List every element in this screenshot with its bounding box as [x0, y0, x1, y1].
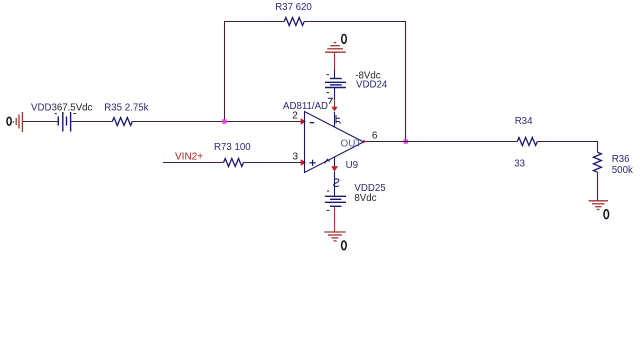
battery VDD3	[58, 112, 70, 132]
wire: feedback left vertical (junction to top)	[224, 22, 226, 122]
wire: feedback right vertical	[405, 22, 407, 142]
resistor R34	[517, 138, 537, 146]
V- power arrow	[331, 166, 338, 171]
V+ power arrow	[331, 107, 337, 112]
ground 0 (right)	[589, 201, 609, 210]
op-amp U9 triangle	[305, 112, 364, 173]
wire: R35 to op-amp pin 2	[132, 121, 301, 123]
svg-text:R35 2.75k: R35 2.75k	[104, 102, 148, 113]
pin 2 arrowhead	[301, 118, 306, 124]
svg-text:R36: R36	[612, 154, 630, 165]
op-amp plus sign	[310, 160, 316, 166]
wire: battery to R35	[71, 121, 113, 123]
wire: VDD24 to op-amp V+ pin	[334, 88, 336, 100]
pin 4 mark on bottom edge	[325, 159, 330, 163]
pin 7 mark (superscript)	[328, 98, 333, 103]
wire: V- pin to VDD25	[334, 172, 336, 197]
wire: R34 to corner and down to R36	[537, 142, 597, 153]
svg-text:8Vdc: 8Vdc	[354, 193, 376, 204]
svg-text:33: 33	[514, 159, 525, 170]
resistor R36	[593, 152, 601, 172]
op-amp V+ pin	[334, 112, 336, 128]
label 0 (bottom middle ground)	[342, 241, 347, 250]
battery VDD25	[325, 196, 346, 206]
svg-text:VDD24: VDD24	[356, 80, 388, 91]
pin 7 glyph (rotated)	[336, 115, 341, 124]
wire: op-amp output to R34	[366, 141, 517, 143]
ground 0 (bottom middle)	[324, 232, 345, 241]
resistor R37	[284, 18, 304, 26]
output arrowhead at apex	[363, 140, 366, 144]
wire: R36 to right ground	[597, 172, 599, 201]
pin 4 glyph (rotated)	[334, 179, 339, 187]
svg-text:R73 100: R73 100	[214, 142, 251, 153]
wire: top ground to VDD24	[334, 52, 336, 69]
resistor R35	[112, 118, 132, 126]
svg-text:OUT: OUT	[341, 138, 362, 149]
ground 0 (top, inverted)	[325, 43, 346, 53]
resistor R73	[224, 159, 244, 167]
svg-text:U9: U9	[346, 160, 358, 171]
op-amp minus sign	[310, 122, 315, 124]
wire: left ground to battery	[23, 121, 58, 123]
wire: R73 to op-amp pin 3	[244, 162, 302, 164]
wire: VIN2+ to R73	[163, 162, 224, 164]
svg-text:AD811/AD: AD811/AD	[283, 101, 328, 112]
svg-text:R34: R34	[515, 116, 533, 127]
battery VDD24	[325, 79, 346, 88]
label 0 (top ground)	[342, 35, 347, 44]
junction node (feedback/input)	[222, 119, 226, 123]
wire: VDD25 to bottom ground	[334, 206, 336, 232]
svg-text:2: 2	[292, 111, 298, 122]
junction node (output/feedback)	[404, 139, 408, 143]
pin 3 arrowhead	[301, 159, 306, 165]
svg-text:R37 620: R37 620	[275, 2, 312, 13]
svg-text:6: 6	[372, 131, 378, 142]
ground 0 (left, rotated)	[16, 112, 22, 132]
wire: feedback top horizontal right of R37	[304, 21, 406, 23]
label 0 (right ground)	[604, 210, 609, 219]
label 0 (left ground)	[7, 117, 11, 125]
svg-text:VDD367.5Vdc: VDD367.5Vdc	[31, 102, 93, 113]
svg-text:500k: 500k	[612, 165, 633, 176]
svg-text:3: 3	[293, 152, 299, 163]
wire: feedback top horizontal	[224, 21, 284, 23]
op-amp V- pin	[334, 157, 336, 167]
svg-text:VIN2+: VIN2+	[175, 152, 203, 163]
